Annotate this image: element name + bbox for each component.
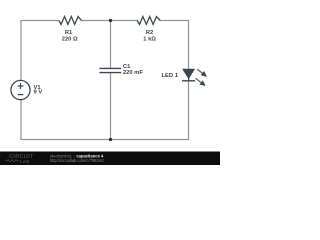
svg-text:LED 1: LED 1 [162, 73, 179, 79]
svg-text:220 Ω: 220 Ω [62, 37, 78, 43]
svg-text:R1: R1 [65, 30, 73, 36]
svg-text:9 V: 9 V [34, 90, 43, 96]
svg-text:C1: C1 [123, 64, 131, 70]
svg-text:1 kΩ: 1 kΩ [143, 37, 156, 43]
svg-text:220 mF: 220 mF [123, 70, 143, 76]
svg-text:R2: R2 [146, 30, 153, 36]
svg-text:http://circuitlab.com/c/7962mz: http://circuitlab.com/c/7962mz [50, 158, 104, 163]
svg-text:LAB: LAB [20, 159, 30, 164]
